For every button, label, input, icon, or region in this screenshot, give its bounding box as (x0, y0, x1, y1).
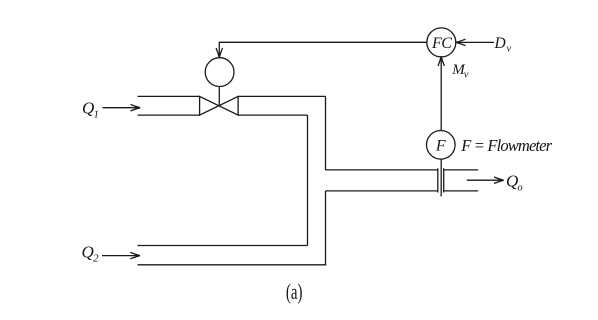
label Dv (494, 35, 512, 55)
svg-text:(a): (a) (286, 279, 303, 304)
flow arrow Q1 (103, 105, 141, 111)
pipe: Q2 inlet top wall (138, 245, 308, 247)
controller FC (427, 28, 456, 57)
pipe: Q2 inlet bottom wall (138, 264, 327, 266)
flow arrow Q2 (102, 252, 140, 258)
label Q1 (82, 99, 99, 121)
pipe: valve outlet top wall (238, 95, 325, 97)
flow arrow Qo (467, 177, 504, 183)
flowmeter stem (440, 159, 442, 196)
label Qo (506, 171, 523, 193)
pipe: outlet top wall (326, 169, 479, 171)
measurement wire F to FC (438, 56, 444, 130)
svg-text:1: 1 (94, 108, 100, 120)
pipe: downcomer right wall upper (325, 96, 327, 170)
control valve (200, 96, 239, 115)
svg-text:2: 2 (93, 253, 99, 265)
pipe: downcomer right wall lower (325, 191, 327, 265)
svg-text:D: D (494, 35, 506, 52)
pipe: Q1 inlet (138, 96, 200, 115)
label Q2 (82, 243, 100, 265)
svg-text:v: v (464, 70, 469, 81)
orifice plate lines (438, 168, 444, 192)
svg-text:Q: Q (82, 243, 94, 262)
label Mv (451, 62, 469, 81)
svg-text:F = Flowmeter: F = Flowmeter (460, 136, 552, 155)
svg-text:FC: FC (431, 35, 452, 52)
svg-text:v: v (507, 44, 512, 55)
control signal wire FC to valve (216, 42, 427, 57)
svg-text:o: o (517, 182, 522, 193)
valve stem (218, 87, 220, 106)
pipe: valve outlet bottom wall (238, 114, 308, 116)
flowmeter F (427, 131, 456, 160)
valve actuator (205, 58, 234, 87)
pipe: downcomer left wall (307, 115, 309, 245)
setpoint arrow Dv (456, 39, 494, 45)
pipe: outlet bottom wall (326, 190, 479, 192)
svg-text:Q: Q (82, 99, 94, 118)
svg-text:F: F (435, 137, 446, 154)
